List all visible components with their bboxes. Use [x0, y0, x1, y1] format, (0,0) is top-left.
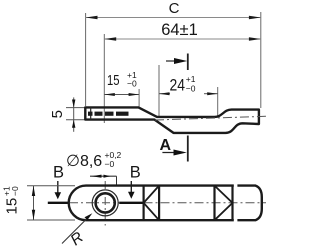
side view: lug outline	[85, 107, 259, 132]
R leader line with arrowhead	[62, 213, 92, 243]
svg-text:64±1: 64±1	[161, 21, 198, 39]
svg-text:+1: +1	[186, 74, 196, 84]
dimension 15 +1/-0 line	[104, 94, 139, 96]
section arrow B left	[55, 181, 62, 199]
dimension 64±1 line	[104, 38, 260, 40]
dimension C line	[86, 17, 261, 19]
extension line left of C dimension (part left edge projected)	[85, 13, 87, 106]
svg-text:15: 15	[4, 198, 21, 215]
dimension 24 +1/-0 line	[159, 93, 218, 95]
svg-text:A: A	[160, 137, 172, 154]
svg-text:C: C	[169, 0, 180, 17]
svg-text:15: 15	[107, 72, 120, 89]
bottom view: crimp mark left (left-pointing triangle)	[144, 186, 160, 221]
label 15 +1/-0 rotated (left)	[2, 186, 21, 214]
side view: barrel centre line	[155, 116, 266, 120]
section line A upper segment with arrow	[166, 54, 188, 71]
bottom view: hole bold circle	[96, 193, 115, 212]
svg-text:B: B	[53, 164, 64, 182]
svg-text:∅8,6: ∅8,6	[66, 153, 102, 170]
side view: hidden hole band (thick dashes)	[88, 112, 129, 116]
dimension C arrowheads	[86, 16, 261, 19]
dimension 15 +1/-0 vertical (bottom view width)	[27, 186, 75, 220]
svg-text:−0: −0	[105, 159, 115, 169]
svg-text:B: B	[130, 164, 141, 182]
bottom view: boss circle	[92, 190, 118, 216]
dimension 15 arrowheads	[104, 93, 139, 96]
bottom view: horizontal centre line (section B-B cutting line)	[48, 202, 266, 204]
section line A lower segment with arrow and label	[160, 136, 188, 162]
extension line at x=217.7 (right end of 24 dim)	[217, 87, 219, 116]
extension line at x=139.1 (right end of 15 dim)	[138, 89, 140, 107]
section arrow B right	[128, 181, 135, 199]
bottom view: hole vertical centre line	[104, 181, 106, 226]
label Ø8,6 +0,2/-0	[66, 150, 122, 170]
svg-text:24: 24	[170, 77, 186, 95]
dimension 24 arrowheads	[159, 92, 218, 95]
hole diameter dimension line with arrows	[90, 175, 117, 186]
extension line right end of part for C and 64 dims	[260, 12, 262, 108]
svg-text:5: 5	[49, 110, 66, 118]
bottom view: flared end section	[237, 186, 261, 221]
svg-text:−0: −0	[127, 79, 137, 89]
dimension 64±1 arrowheads	[104, 37, 260, 40]
bottom view: barrel separation verticals	[144, 186, 233, 221]
dimension 5 (pad thickness)	[66, 97, 85, 131]
bottom view: lug outline with rounded left end	[69, 186, 234, 221]
extension / hole centre line at x=104.3 for 64 and 15 dims	[103, 34, 105, 123]
bottom view: crimp mark right (right-pointing triangle)	[215, 186, 233, 221]
side view: pad left inner vertical line	[90, 107, 92, 119]
svg-text:−0: −0	[186, 84, 196, 94]
label 24 +1/-0	[170, 74, 196, 95]
svg-text:−0: −0	[10, 186, 20, 196]
label 15 +1/-0	[107, 70, 137, 89]
extension line at x=159 (left end of 24 dim)	[158, 65, 160, 116]
